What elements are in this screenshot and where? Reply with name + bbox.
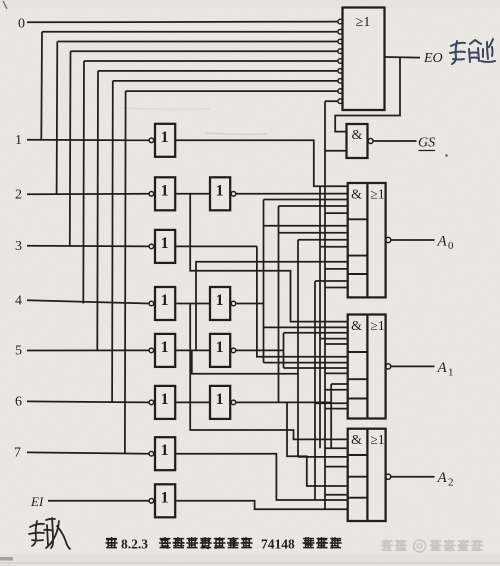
wire EO to GS-gate wrap [335, 57, 400, 131]
svg-text:1: 1 [15, 133, 22, 148]
wire NEI stub y213.1 [325, 212, 347, 214]
inverter 1 (NOT gate '1') [149, 124, 175, 157]
svg-text:2: 2 [15, 187, 22, 202]
wire D4 stub A0-S1 [264, 199, 347, 201]
svg-text:A: A [437, 360, 448, 376]
wire lane x298 stub A2-S2 [298, 456, 347, 458]
wire NEI lane up to OR bubble 9 [325, 101, 338, 509]
wire NEI stub y373.4 [325, 372, 347, 374]
bus riser input 4 [82, 61, 85, 304]
wire D4 stub A1-S2 [264, 362, 347, 364]
input 3 label [15, 239, 22, 254]
bus riser input 3 [69, 51, 72, 246]
input 5 label [15, 344, 22, 359]
svg-text:GS: GS [418, 136, 435, 151]
input 1 label [15, 133, 22, 148]
svg-text:&: & [351, 319, 362, 334]
wire lane x298 [297, 240, 299, 457]
wire NEI stub y344.0 [325, 343, 347, 345]
inverter 5 second stage (NOT gate '1') with input wire [176, 334, 236, 367]
wire NEI stub y408.6 [325, 408, 347, 410]
input EI label [30, 494, 44, 509]
wire input 0 to OR [27, 21, 338, 24]
AOI gate A0 (AND-OR-INVERT) [348, 183, 391, 297]
wire input 2 [27, 193, 149, 195]
wire NEI stub y448.2 [325, 447, 347, 449]
wire N6 lane down [330, 402, 332, 448]
svg-text:1: 1 [448, 366, 454, 378]
AOI gate A2 (AND-OR-INVERT) [348, 429, 391, 521]
wire D5 (inv5'' out) lane [236, 333, 284, 368]
svg-text:0: 0 [448, 240, 454, 252]
inverter EI (NOT gate '1') [149, 484, 175, 517]
wire D4 stub A0-S2 [264, 225, 347, 227]
GS label [418, 136, 435, 151]
A0 label [437, 234, 455, 253]
wire NEI stub y494.8 [325, 494, 347, 496]
bus horizontal input 7 to OR [126, 90, 338, 92]
svg-text:&: & [352, 128, 363, 143]
wire input EI [48, 500, 149, 502]
wire NEI stub GS [325, 150, 346, 152]
AOI gate A1 (AND-OR-INVERT) [348, 315, 391, 419]
svg-text:1: 1 [161, 182, 169, 199]
wire N3 (inv3 out) line [176, 245, 257, 247]
bus horizontal input 6 to OR [113, 80, 338, 82]
svg-text:EO: EO [423, 51, 443, 66]
bus horizontal input 2 to OR [57, 41, 338, 43]
bus riser input 1 [40, 32, 43, 141]
svg-text:1: 1 [161, 235, 169, 252]
svg-text:1: 1 [161, 489, 169, 506]
bus riser input 7 [124, 91, 127, 454]
inverter 4 (NOT gate '1') [149, 287, 175, 320]
svg-text:&: & [351, 188, 362, 203]
handwritten annotation 输入 [29, 518, 70, 549]
bottom-left scan mark [0, 557, 13, 561]
wire NEI stub y268.9 [325, 268, 347, 270]
wire D2 (inv2'' out) to A0-S1 [236, 193, 347, 195]
caption 图 8.2.3 集成优先编码器 74148 逻辑图 [106, 537, 342, 552]
wire NEI stub y287.5 [325, 287, 347, 289]
bus horizontal input 5 to OR [98, 70, 338, 72]
svg-text:1: 1 [216, 182, 224, 199]
bus riser input 2 [56, 42, 59, 194]
wire secondary lane stub A1-S1 [320, 338, 347, 340]
wire N7 stub A1-S4 [315, 402, 347, 404]
wire NEI (invEI out) to A2-S4 [176, 501, 347, 510]
faint smudge [120, 108, 267, 134]
wire N6 staircase to A2-S3 [287, 402, 347, 486]
wire input 4 [27, 300, 149, 303]
wire input 1 [27, 139, 149, 142]
svg-text:1: 1 [161, 129, 169, 146]
handwritten annotation 输出 [450, 39, 495, 64]
svg-text:8.2.3: 8.2.3 [121, 537, 148, 552]
wire N5 branch to A2-S2 [192, 350, 298, 373]
svg-text:≥1: ≥1 [370, 318, 384, 333]
inverter 6 second stage (NOT gate '1') with input wire [176, 386, 236, 419]
bus riser input 6 [111, 81, 114, 403]
svg-text:7: 7 [14, 446, 21, 461]
bus horizontal input 1 to OR [42, 31, 338, 33]
bus riser input 5 [96, 71, 99, 351]
svg-text:≥1: ≥1 [370, 187, 384, 202]
AND gate for GS [347, 124, 374, 158]
wire A1 output [391, 365, 435, 367]
wire D5 stub A1-S2 [284, 367, 347, 369]
input 2 label [15, 187, 22, 202]
wire EO output [386, 56, 421, 59]
svg-text:EI: EI [30, 494, 44, 509]
wire A0 output [391, 239, 435, 241]
wire lane x298 stub A0-S2 [298, 239, 347, 241]
wire D6 lane up [278, 206, 280, 402]
svg-text:1: 1 [161, 391, 169, 408]
wire N1 (inv1 out) to A0-S1 [176, 140, 347, 186]
inverter 2 second stage (NOT gate '1') with input wire [176, 177, 236, 210]
inverter 5 (NOT gate '1') [149, 334, 175, 367]
wire N3 branch to A1-S2 [257, 246, 347, 356]
wire NEI stub y389.8 [325, 389, 347, 391]
stray pen mark [3, 1, 7, 9]
wire N6 lane to A1-S3 [331, 384, 347, 402]
svg-text:74148: 74148 [261, 537, 295, 552]
svg-text:4: 4 [15, 294, 22, 309]
input 6 label [15, 395, 22, 410]
bus horizontal input 3 to OR [71, 50, 338, 52]
svg-text:1: 1 [161, 339, 169, 356]
wire N5 branch to A0-S3 [196, 262, 347, 351]
inverter 3 (NOT gate '1') [149, 230, 175, 263]
wire GS output [373, 140, 416, 142]
wire secondary EI lane [319, 186, 321, 448]
wire secondary lane stub A0-S2 [320, 246, 347, 248]
bus horizontal input 4 to OR [84, 60, 338, 62]
wire N7 stub A0-S4 [315, 280, 347, 282]
wire input 6 [27, 401, 149, 402]
inverter 2 (NOT gate '1') [149, 177, 175, 210]
svg-text:5: 5 [15, 344, 22, 359]
stray dot [445, 154, 447, 156]
wire D6 stub A0-S1 [279, 205, 347, 207]
wire D5 stub A1-S1 [284, 332, 347, 334]
wire D4 (inv4'' out) lane [236, 200, 264, 363]
OR gate (&#8805;1) for EO [338, 8, 385, 111]
svg-text:≥1: ≥1 [356, 15, 371, 30]
svg-text:1: 1 [161, 292, 169, 309]
svg-text:6: 6 [15, 395, 22, 410]
input 4 label [15, 294, 22, 309]
svg-text:1: 1 [216, 339, 224, 356]
A1 label [437, 360, 454, 379]
wire D6 stub A0-S2 [279, 232, 347, 234]
wire N7 (inv7 out) to A2-S4 [176, 454, 347, 500]
wire NEI stub y466.6 [325, 466, 347, 468]
wire A2 output [391, 476, 435, 478]
wire N2 branch to A1-S1 [190, 194, 347, 322]
A2 label [437, 470, 454, 489]
wire input 5 [27, 349, 149, 351]
wire input 3 [27, 245, 149, 248]
EO label [423, 51, 443, 66]
svg-text:1: 1 [216, 292, 224, 309]
watermark 知乎 @中二少年 [381, 540, 483, 553]
svg-text:&: & [351, 433, 362, 448]
svg-text:3: 3 [15, 239, 22, 254]
inverter 4 second stage (NOT gate '1') with input wire [176, 287, 236, 320]
svg-text:1: 1 [161, 442, 169, 459]
input 7 label [14, 446, 21, 461]
wire D4 stub A1-S1 [264, 326, 347, 328]
inverter 7 (NOT gate '1') [149, 437, 175, 470]
svg-text:0: 0 [18, 17, 25, 32]
wire D6 (inv6'' out) horizontal [236, 401, 331, 403]
svg-text:≥1: ≥1 [370, 432, 384, 447]
svg-text:A: A [437, 470, 448, 486]
svg-text:A: A [437, 234, 448, 250]
wire N7 up lane [314, 281, 316, 500]
svg-text:1: 1 [216, 391, 224, 408]
inverter 6 (NOT gate '1') [149, 386, 175, 419]
svg-text:2: 2 [448, 477, 454, 489]
input 0 label [18, 17, 25, 32]
wire N4 branch to A2-S1 [190, 304, 347, 440]
wire input 7 [27, 452, 149, 453]
